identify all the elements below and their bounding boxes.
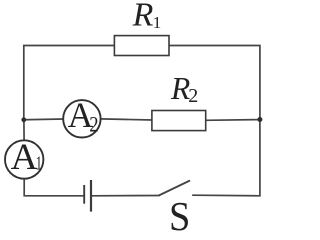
wire top-left (left wire upper + top wire to R1) — [24, 46, 115, 120]
wire A2 to R2 — [101, 119, 152, 120]
wire junction to ammeter A1 — [23, 120, 25, 141]
resistor R1 — [114, 36, 169, 56]
svg-text:S: S — [169, 194, 190, 231]
svg-text:1: 1 — [153, 13, 162, 32]
wire battery to switch — [92, 195, 159, 197]
ammeter A2 circle — [63, 100, 100, 137]
resistor R2 — [152, 111, 206, 131]
battery: short plate (negative) — [83, 185, 85, 204]
wire middle branch left (junction to A2) — [24, 118, 63, 121]
svg-text:1: 1 — [36, 152, 42, 175]
switch S blade — [159, 181, 190, 196]
node right junction — [257, 117, 262, 122]
wire top-right (top wire from R1 + right wire upper) — [169, 46, 260, 120]
wire bottom-right (switch to corner + right wire lower) — [193, 120, 260, 196]
wire R2 to right junction — [206, 119, 260, 122]
svg-text:2: 2 — [188, 85, 198, 107]
battery: long plate (positive) — [90, 180, 92, 212]
wire A1 to bottom-left corner + bottom wire to battery — [24, 179, 83, 196]
svg-text:R: R — [132, 0, 154, 34]
svg-text:2: 2 — [89, 113, 98, 137]
node left junction — [21, 117, 26, 122]
svg-text:A: A — [11, 137, 38, 178]
ammeter A1 circle — [5, 140, 43, 178]
